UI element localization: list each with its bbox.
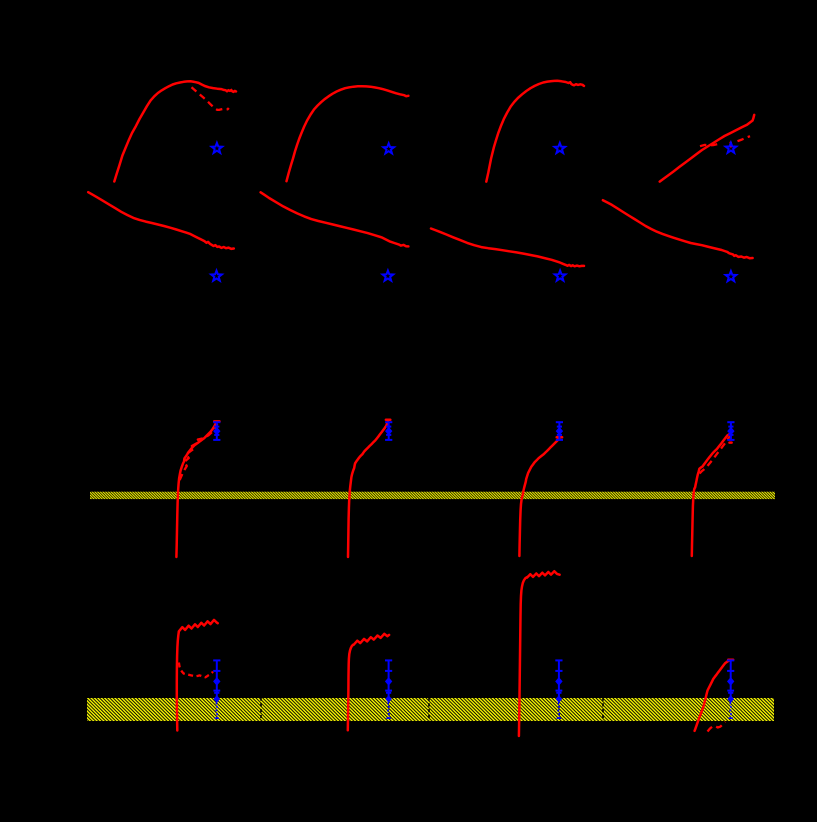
bottom-row panel4 dashed branch below band <box>708 722 726 732</box>
top-row panel1 declining light curve <box>88 192 234 249</box>
middle-row panel3 blue point with error bars <box>558 422 560 440</box>
bottom-row panel4 red cap at curve top <box>728 659 733 662</box>
middle-row panel3 rising curve (solid) <box>519 438 559 556</box>
middle thin yellow hatched band (noise floor) <box>90 492 775 499</box>
middle-row panel2 blue point with error bars <box>388 422 390 440</box>
top-row panel4 upper blue star marker <box>726 143 737 153</box>
top-row panel2 lower blue star marker <box>383 271 394 281</box>
middle-row panel4 rising curve (solid) <box>692 434 730 556</box>
top-row panel1 rising light curve (solid) <box>114 81 236 181</box>
black dashed vertical separator line 1 in band <box>260 698 262 722</box>
middle-row panel4 blue point with error bars <box>730 422 732 440</box>
top-row panel4 rising light curve (solid) <box>660 115 755 182</box>
top-row panel2 upper blue star marker <box>383 143 394 153</box>
top-row panel1 upper blue star marker <box>212 143 223 153</box>
bottom-row panel1 rising curve (solid, sawtooth top) <box>177 620 218 731</box>
top-row panel2 declining light curve <box>261 192 409 246</box>
bottom-row panel4 blue points with error bars <box>730 660 732 700</box>
top-row panel2 rising light curve (solid) <box>287 86 409 181</box>
bottom-row panel2 rising curve (solid, sawtooth top) <box>348 634 389 731</box>
middle-row panel1 red cap at curve top <box>214 420 219 423</box>
middle-row panel2 red cap at curve top <box>386 419 390 422</box>
bottom-row panel3 rising curve (solid, sawtooth top) <box>519 571 560 736</box>
bottom-row panel1 blue points with error bars <box>216 660 218 700</box>
top-row panel4 small red tick above star <box>729 143 732 147</box>
bottom-row panel4 rising diagonal curve (solid) <box>695 660 731 731</box>
black dashed vertical separator line 2 in band <box>428 698 430 722</box>
middle-row panel1 dashed model curve weaving around solid <box>180 424 218 480</box>
top-row panel4 declining light curve <box>603 200 753 258</box>
bottom-row panel2 blue points with error bars <box>388 660 390 700</box>
top-row panel4 lower blue star marker <box>726 271 737 281</box>
top-row panel3 lower blue star marker <box>555 271 566 281</box>
middle-row panel1 rising curve (solid) <box>176 422 216 557</box>
bottom thick yellow hatched band <box>87 698 774 721</box>
middle-row panel1 blue point with error bars <box>216 422 218 440</box>
top-row panel3 upper blue star marker <box>555 143 566 153</box>
middle-row panel2 rising curve (solid) <box>348 422 388 557</box>
top-row panel3 declining light curve <box>431 229 584 267</box>
middle-row panel3 red cap at curve top <box>557 436 562 439</box>
bottom-row panel1 dashed branch below sawtooth <box>179 663 213 678</box>
middle-row panel4 dashed model branch <box>700 436 731 474</box>
top-row panel4 dashed branch through star <box>700 144 721 147</box>
black dashed vertical separator line 3 in band <box>602 698 604 722</box>
top-row panel3 rising light curve (solid) <box>486 81 584 182</box>
top-row panel1 lower blue star marker <box>211 271 222 281</box>
bottom-row panel3 blue points with error bars <box>558 660 560 700</box>
middle-row panel4 small red dot below marker <box>730 441 732 444</box>
top-row panel1 dashed branch <box>192 87 229 110</box>
